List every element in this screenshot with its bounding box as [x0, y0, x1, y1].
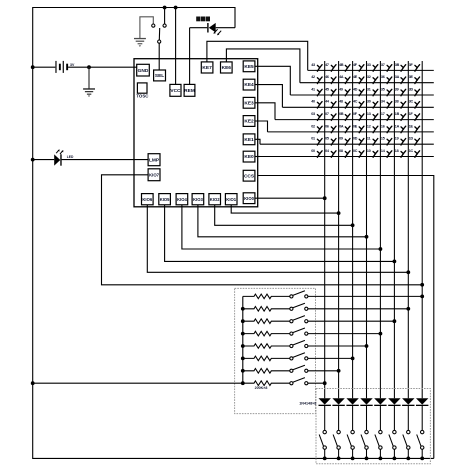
svg-text:15: 15 [381, 137, 385, 141]
svg-text:37: 37 [381, 63, 385, 67]
svg-text:KE3: KE3 [244, 100, 254, 106]
svg-text:KE2: KE2 [244, 119, 254, 125]
svg-text:KIO6: KIO6 [142, 197, 152, 202]
svg-text:3C: 3C [409, 100, 414, 104]
svg-text:49: 49 [339, 87, 343, 91]
svg-text:KIO4: KIO4 [177, 197, 187, 202]
svg-text:33: 33 [367, 63, 371, 67]
svg-text:0D: 0D [353, 137, 358, 141]
svg-text:00: 00 [311, 149, 315, 153]
svg-text:1C: 1C [409, 149, 414, 153]
svg-text:07: 07 [325, 112, 329, 116]
svg-text:16: 16 [381, 124, 385, 128]
svg-text:1D: 1D [409, 137, 414, 141]
svg-text:KIO3: KIO3 [193, 197, 203, 202]
svg-text:18: 18 [395, 149, 399, 153]
svg-text:43: 43 [311, 63, 315, 67]
svg-text:KE5: KE5 [244, 64, 254, 70]
svg-text:KE0: KE0 [244, 154, 254, 160]
svg-text:CCS: CCS [244, 173, 255, 179]
svg-text:48: 48 [339, 100, 343, 104]
svg-text:11: 11 [367, 137, 371, 141]
svg-text:3B: 3B [395, 63, 400, 67]
svg-text:40: 40 [311, 100, 315, 104]
svg-text:3A: 3A [395, 75, 400, 79]
svg-text:4C: 4C [353, 100, 358, 104]
svg-text:41: 41 [311, 87, 315, 91]
svg-text:1A: 1A [395, 124, 400, 128]
svg-text:12: 12 [367, 124, 371, 128]
svg-text:200K×8: 200K×8 [255, 386, 268, 390]
svg-text:LMP: LMP [149, 157, 160, 163]
svg-text:0A: 0A [339, 124, 344, 128]
svg-text:VCC: VCC [170, 88, 181, 94]
svg-text:REM: REM [184, 88, 195, 94]
svg-text:3V: 3V [70, 63, 75, 67]
svg-text:35: 35 [381, 87, 385, 91]
svg-text:45: 45 [325, 87, 329, 91]
svg-text:32: 32 [367, 75, 371, 79]
svg-text:31: 31 [367, 87, 371, 91]
svg-text:36: 36 [381, 75, 385, 79]
svg-text:3D: 3D [409, 87, 414, 91]
svg-text:TOSC: TOSC [136, 94, 149, 99]
svg-text:19: 19 [395, 137, 399, 141]
svg-text:08: 08 [339, 149, 343, 153]
svg-text:LED: LED [67, 155, 74, 159]
svg-text:KE6: KE6 [222, 65, 232, 71]
svg-text:KE1: KE1 [244, 137, 254, 143]
svg-text:06: 06 [325, 124, 329, 128]
svg-text:0B: 0B [339, 112, 344, 116]
svg-text:30: 30 [367, 100, 371, 104]
svg-text:42: 42 [311, 75, 315, 79]
svg-text:46: 46 [325, 75, 329, 79]
svg-text:KIO7: KIO7 [149, 172, 160, 177]
svg-text:KIO0: KIO0 [244, 196, 254, 201]
svg-text:17: 17 [381, 112, 385, 116]
svg-text:KIO1: KIO1 [226, 197, 236, 202]
svg-text:1N4148×8: 1N4148×8 [299, 402, 316, 406]
svg-text:4A: 4A [339, 75, 344, 79]
svg-text:SEL: SEL [155, 73, 164, 79]
svg-text:39: 39 [395, 87, 399, 91]
svg-text:38: 38 [395, 100, 399, 104]
svg-text:1B: 1B [395, 112, 400, 116]
svg-text:4B: 4B [339, 63, 344, 67]
svg-text:KIO5: KIO5 [160, 197, 170, 202]
svg-text:4D: 4D [353, 87, 358, 91]
svg-text:GND: GND [138, 68, 149, 74]
svg-text:02: 02 [311, 124, 315, 128]
svg-text:KIO2: KIO2 [210, 197, 220, 202]
svg-text:03: 03 [311, 112, 315, 116]
svg-text:13: 13 [367, 112, 371, 116]
svg-text:47: 47 [325, 63, 329, 67]
svg-text:09: 09 [339, 137, 343, 141]
svg-text:0C: 0C [353, 149, 358, 153]
svg-text:05: 05 [325, 137, 329, 141]
svg-text:01: 01 [311, 137, 315, 141]
svg-text:10: 10 [367, 149, 371, 153]
svg-text:KE4: KE4 [244, 82, 254, 88]
svg-text:KE7: KE7 [202, 65, 212, 71]
